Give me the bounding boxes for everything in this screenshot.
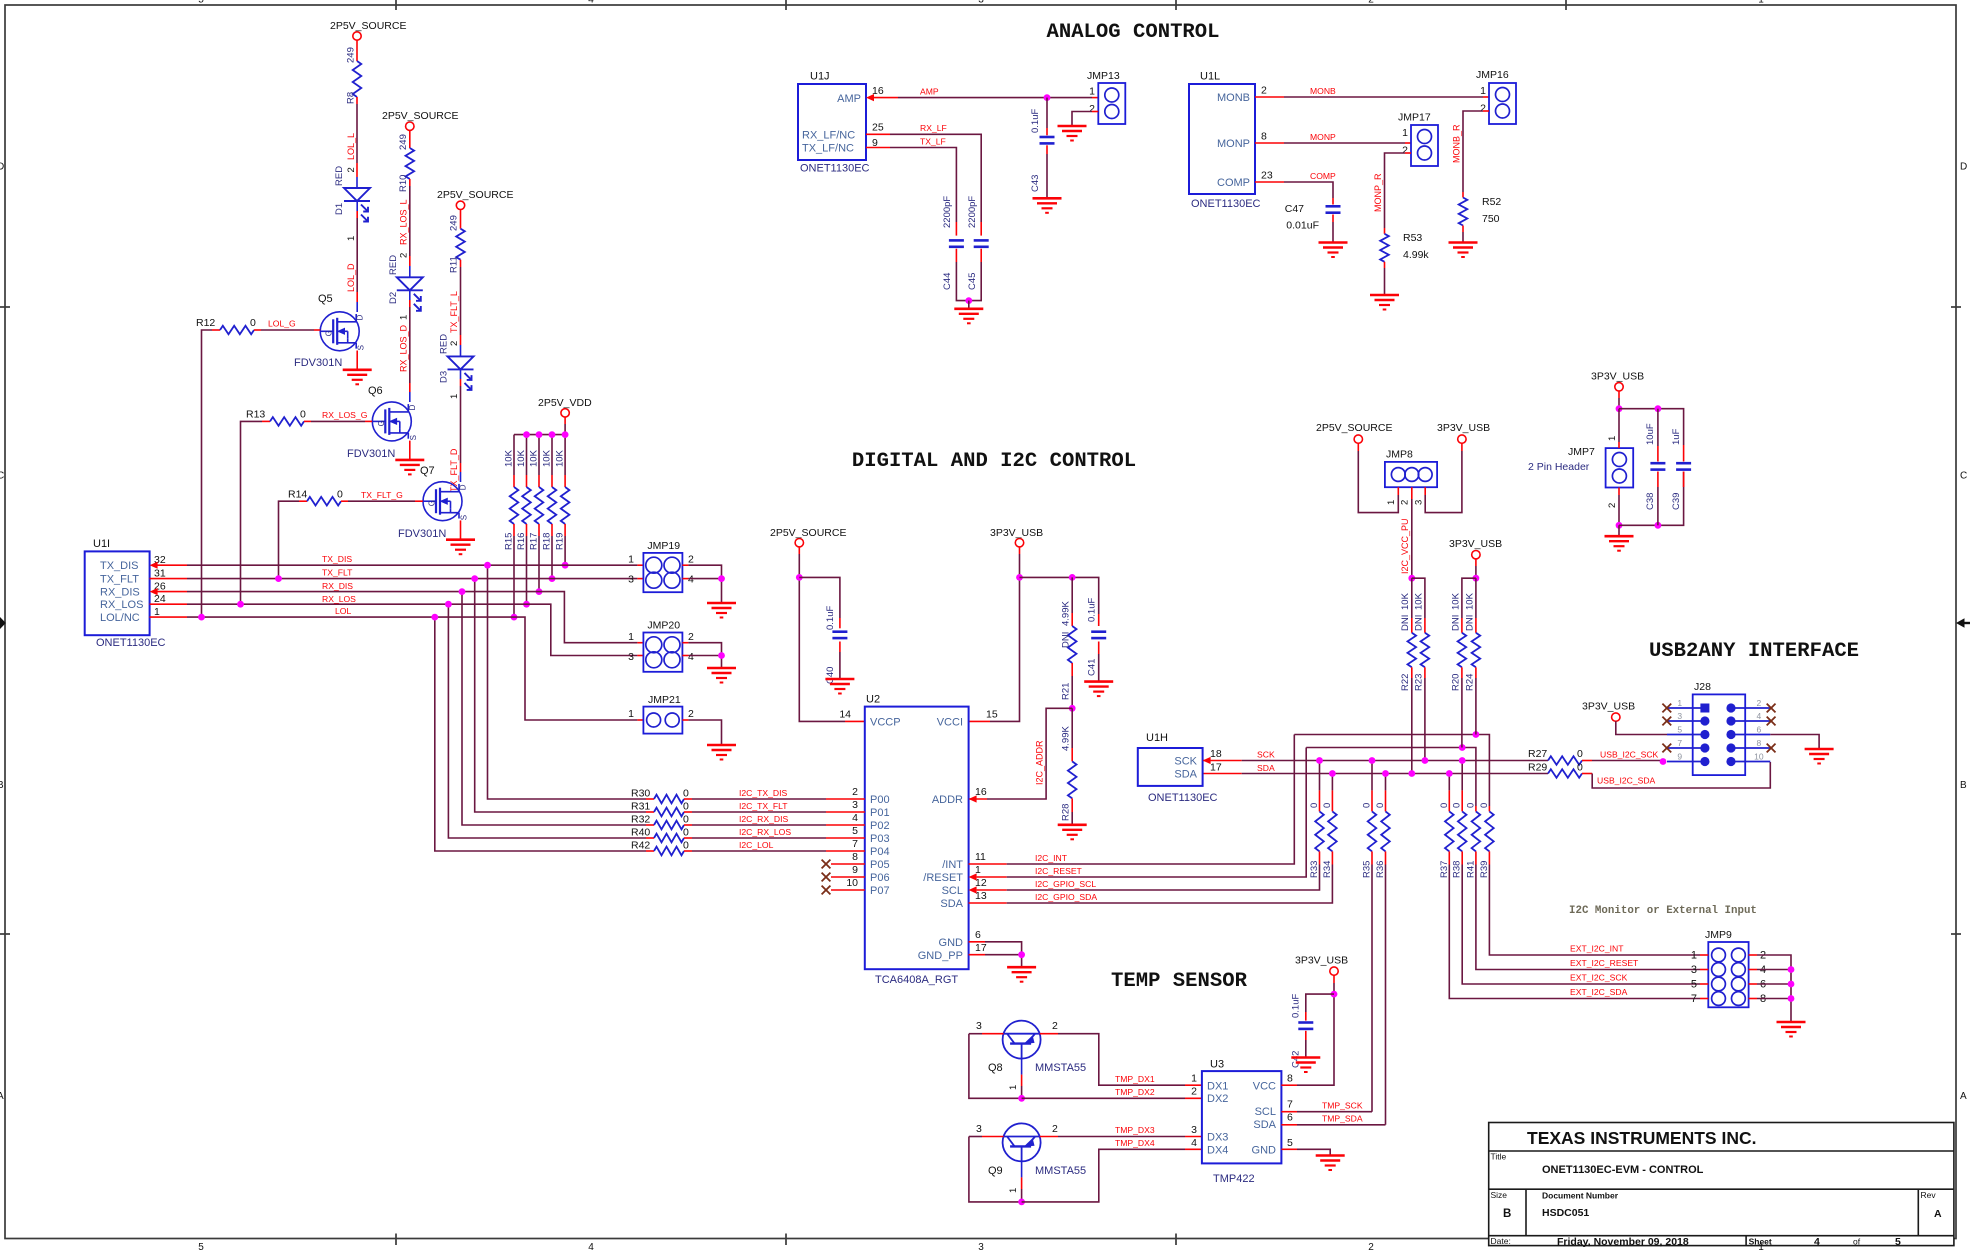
- junction C38 bottom: [1655, 522, 1662, 529]
- junction R21 top: [1069, 574, 1076, 581]
- resistor R16 10K: [516, 435, 531, 605]
- junction R37 top: [1446, 770, 1453, 777]
- label FDV301N (Q6): [347, 448, 395, 460]
- svg-text:D: D: [356, 314, 365, 320]
- IC U1I ONET1130EC (status pins): [85, 551, 150, 635]
- svg-text:DX4: DX4: [1207, 1145, 1228, 1157]
- svg-text:4.99K: 4.99K: [1061, 726, 1072, 751]
- svg-text:S: S: [409, 435, 418, 440]
- wire R11 to D3 anode (net TX_FLT_L): [460, 260, 462, 357]
- svg-text:JMP8: JMP8: [1386, 449, 1413, 461]
- svg-text:4: 4: [688, 651, 694, 663]
- wire R10 to D2 anode (net RX_LOS_L): [409, 179, 411, 277]
- svg-text:2P5V_SOURCE: 2P5V_SOURCE: [330, 20, 406, 32]
- svg-text:10K: 10K: [542, 449, 553, 467]
- svg-text:1: 1: [1677, 698, 1682, 708]
- svg-text:I2C_VCC_PU: I2C_VCC_PU: [1400, 518, 1410, 574]
- wire Q8 pin2 to DX1: [1040, 1034, 1202, 1086]
- svg-text:D: D: [408, 404, 417, 410]
- svg-text:C47: C47: [1285, 203, 1304, 215]
- U1I pin names: [100, 560, 143, 624]
- svg-text:VCCI: VCCI: [937, 717, 963, 729]
- ground C43: [1033, 198, 1062, 213]
- svg-text:1: 1: [1758, 0, 1764, 6]
- svg-text:R34: R34: [1322, 861, 1333, 878]
- wire 2P5V_SOURCE to VCCP: [799, 547, 865, 721]
- svg-text:C: C: [1960, 471, 1967, 482]
- svg-text:AMP: AMP: [837, 93, 861, 105]
- svg-text:ONET1130EC: ONET1130EC: [96, 637, 166, 649]
- svg-text:TMP_SCK: TMP_SCK: [1322, 1101, 1363, 1111]
- svg-text:C40: C40: [825, 667, 836, 684]
- svg-text:LOL_G: LOL_G: [268, 319, 296, 329]
- wire Q5 source to ground: [356, 351, 358, 370]
- junction JMP7 top bus: [1616, 405, 1623, 412]
- power terminal 3P3V_USB (J28): [1582, 701, 1635, 722]
- svg-text:5: 5: [1677, 725, 1682, 735]
- svg-text:D: D: [0, 162, 4, 173]
- svg-text:8: 8: [1287, 1073, 1293, 1085]
- Q9 pin numbers: [976, 1123, 1058, 1193]
- net label USB_I2C_SDA: [1597, 776, 1656, 786]
- svg-text:R23: R23: [1414, 674, 1425, 691]
- net label MONP_R: [1373, 173, 1383, 212]
- junction Q9 emitter/base: [1018, 1199, 1025, 1206]
- net label TMP_SCK: [1322, 1101, 1363, 1111]
- svg-text:0.1uF: 0.1uF: [1291, 994, 1302, 1018]
- junction VCCI / R21 branch: [1016, 574, 1023, 581]
- svg-text:COMP: COMP: [1217, 177, 1250, 189]
- svg-text:RX_DIS: RX_DIS: [100, 587, 140, 599]
- svg-text:3: 3: [852, 799, 858, 811]
- wire branch to R21 and C41: [1020, 577, 1099, 614]
- wire JMP9 pin6 stub: [1757, 983, 1791, 985]
- wire I2C_INT row: [969, 735, 1295, 865]
- svg-text:C: C: [0, 471, 4, 482]
- svg-text:TX_FLT_G: TX_FLT_G: [361, 490, 403, 500]
- svg-text:MONP: MONP: [1217, 138, 1250, 150]
- svg-text:10K: 10K: [529, 449, 540, 467]
- svg-text:USB_I2C_SCK: USB_I2C_SCK: [1600, 750, 1659, 760]
- svg-text:G: G: [377, 420, 386, 426]
- svg-text:1: 1: [1402, 127, 1408, 139]
- svg-text:VCCP: VCCP: [870, 717, 901, 729]
- svg-text:4: 4: [1757, 711, 1762, 721]
- svg-text:1: 1: [1480, 85, 1486, 97]
- ground JMP9: [1777, 1022, 1806, 1037]
- U1I pin arrows: [150, 562, 158, 596]
- wire 3P3V_USB to U3 VCC: [1281, 975, 1334, 1085]
- wire JMP9 even pins to ground: [1757, 955, 1791, 1022]
- svg-text:2: 2: [1052, 1123, 1058, 1135]
- wire row TX_DIS: [157, 564, 643, 566]
- sheet alignment arrow right: [1956, 618, 1970, 628]
- svg-text:R29: R29: [1528, 762, 1547, 774]
- svg-text:EXT_I2C_SCK: EXT_I2C_SCK: [1570, 973, 1628, 983]
- svg-text:SCK: SCK: [1257, 750, 1275, 760]
- svg-text:Q5: Q5: [318, 293, 333, 305]
- label ONET1130EC (U1I): [96, 637, 166, 649]
- junction R17 to row: [536, 588, 543, 595]
- svg-text:R35: R35: [1362, 861, 1373, 878]
- junction column TX_FLT: [471, 575, 478, 582]
- wire U2 GND/GND_PP to ground: [969, 942, 1022, 967]
- junction R14 column on TX_FLT row: [275, 575, 282, 582]
- wire I2C_GPIO_SCL row: [977, 866, 1320, 890]
- svg-text:MMSTA55: MMSTA55: [1035, 1165, 1086, 1177]
- svg-text:R33: R33: [1309, 861, 1320, 878]
- net label MONB_R: [1452, 124, 1462, 163]
- junction R38 top: [1459, 757, 1466, 764]
- svg-text:LOL_D: LOL_D: [346, 263, 356, 292]
- svg-text:RED: RED: [334, 166, 345, 186]
- JMP19 pin numbers: [628, 554, 694, 586]
- title block Title field: [1491, 1152, 1704, 1177]
- wire R35 to TMP_SCK: [1371, 865, 1373, 1112]
- svg-text:Q7: Q7: [420, 465, 435, 477]
- svg-text:0: 0: [1577, 748, 1583, 760]
- svg-text:R39: R39: [1479, 861, 1490, 878]
- junction R22/R23 top: [1408, 575, 1415, 582]
- svg-text:TCA6408A_RGT: TCA6408A_RGT: [875, 974, 958, 986]
- svg-text:2: 2: [852, 786, 858, 798]
- svg-text:R32: R32: [631, 814, 650, 826]
- svg-text:R37: R37: [1439, 861, 1450, 878]
- svg-text:C45: C45: [967, 273, 978, 290]
- junction R16 to row: [523, 601, 530, 608]
- svg-text:C43: C43: [1030, 175, 1041, 192]
- svg-text:2: 2: [1368, 1242, 1374, 1251]
- wire COMP to C47: [1255, 182, 1333, 198]
- capacitor C41 0.1uF: [1087, 598, 1107, 676]
- svg-text:2P5V_SOURCE: 2P5V_SOURCE: [437, 189, 513, 201]
- svg-text:4: 4: [688, 574, 694, 586]
- label U3: [1210, 1059, 1224, 1071]
- svg-text:I2C_TX_DIS: I2C_TX_DIS: [739, 788, 788, 798]
- no-connect X J28 pin3: [1662, 717, 1671, 726]
- wire SCK row: [1203, 760, 1548, 762]
- jumper JMP9: [1705, 929, 1749, 1007]
- LED D2 (RED): [397, 277, 423, 311]
- svg-text:1: 1: [1386, 500, 1397, 505]
- wire D3 cathode to Q7 drain (net TX_FLT_D): [460, 369, 462, 482]
- svg-text:FDV301N: FDV301N: [398, 528, 446, 540]
- svg-text:TMP_DX1: TMP_DX1: [1115, 1074, 1155, 1084]
- no-connect X P06: [822, 873, 831, 882]
- wire C40 to ground: [839, 642, 841, 680]
- JMP16 pin numbers: [1480, 85, 1486, 115]
- svg-text:2200pF: 2200pF: [967, 196, 978, 228]
- wire column TX_DIS down to I2C resistor: [488, 565, 647, 799]
- svg-text:0: 0: [1375, 803, 1386, 808]
- wire top bus to C38/C39: [1619, 409, 1684, 445]
- svg-text:6: 6: [1287, 1111, 1293, 1123]
- wire column TX_FLT down to I2C resistor: [475, 579, 646, 812]
- svg-text:1: 1: [1607, 436, 1618, 441]
- svg-text:D3: D3: [439, 371, 450, 383]
- svg-text:11: 11: [975, 851, 986, 863]
- U1H pin numbers: [1210, 748, 1222, 774]
- svg-text:7: 7: [1287, 1099, 1293, 1111]
- resistor R24 DNI 10K: [1465, 578, 1481, 734]
- svg-text:2P5V_SOURCE: 2P5V_SOURCE: [770, 527, 846, 539]
- svg-text:14: 14: [839, 709, 851, 721]
- svg-text:C38: C38: [1645, 493, 1656, 510]
- svg-text:2: 2: [688, 708, 694, 720]
- label D3 RED: [439, 334, 450, 383]
- junction JMP19 pin4 ground wire: [718, 575, 725, 582]
- net label TMP_DX2: [1115, 1087, 1155, 1097]
- wire JMP8 pin2 to R22/R23 (net I2C_VCC_PU): [1411, 487, 1413, 578]
- label ONET1130EC (U1H): [1148, 792, 1218, 804]
- svg-text:0: 0: [1362, 803, 1373, 808]
- net label USB_I2C_SCK: [1600, 750, 1659, 760]
- svg-text:TX_DIS: TX_DIS: [100, 560, 139, 572]
- svg-text:I2C_ADDR: I2C_ADDR: [1035, 740, 1045, 785]
- svg-text:0: 0: [683, 827, 689, 839]
- junction GND_PP: [1018, 951, 1025, 958]
- jumper JMP17: [1398, 112, 1438, 167]
- wire J28 pin6 to ground: [1770, 735, 1819, 750]
- svg-text:2: 2: [688, 631, 694, 643]
- power terminal 3P3V_USB (R20/R24): [1449, 538, 1502, 559]
- junction VCCP / C40 branch: [796, 574, 803, 581]
- wire C41 branch: [1098, 614, 1100, 626]
- svg-text:R20: R20: [1451, 674, 1462, 691]
- JMP20 pin numbers: [628, 631, 694, 663]
- capacitor C44 2200pF: [942, 196, 969, 301]
- jumper JMP20: [643, 620, 682, 672]
- svg-text:R21: R21: [1061, 683, 1072, 700]
- svg-text:0: 0: [1322, 803, 1333, 808]
- svg-text:0: 0: [683, 840, 689, 852]
- svg-text:JMP13: JMP13: [1087, 70, 1120, 82]
- svg-text:P05: P05: [870, 859, 890, 871]
- svg-text:0: 0: [1309, 803, 1320, 808]
- svg-text:10uF: 10uF: [1645, 423, 1656, 445]
- resistor R13 0: [241, 409, 373, 605]
- wire JMP16 pin2 to R52 (net MONB_R): [1463, 111, 1489, 198]
- svg-text:TMP_DX3: TMP_DX3: [1115, 1125, 1155, 1135]
- U2 pin arrows: [969, 795, 977, 893]
- svg-text:R52: R52: [1482, 196, 1501, 208]
- svg-text:5: 5: [198, 0, 204, 6]
- wire Q8 pin3 loop: [969, 1034, 1022, 1099]
- svg-text:R16: R16: [516, 533, 527, 550]
- wire 3P3V_USB to JMP7 bus: [1618, 391, 1620, 409]
- svg-text:R42: R42: [631, 840, 650, 852]
- svg-text:2: 2: [346, 167, 357, 172]
- svg-text:JMP16: JMP16: [1476, 69, 1509, 81]
- svg-text:2: 2: [1368, 0, 1374, 6]
- junction JMP9 pin4: [1788, 966, 1795, 973]
- svg-text:2: 2: [688, 554, 694, 566]
- svg-text:TX_DIS: TX_DIS: [322, 554, 352, 564]
- svg-text:5: 5: [1691, 979, 1697, 991]
- wire JMP9 pin4 stub: [1757, 969, 1791, 971]
- U1I pin numbers 32 31 26 24 1: [154, 554, 166, 618]
- svg-text:TMP_DX2: TMP_DX2: [1115, 1087, 1155, 1097]
- svg-text:R30: R30: [631, 788, 650, 800]
- junction R13 column on RX_LOS row: [237, 601, 244, 608]
- svg-text:Q6: Q6: [368, 385, 383, 397]
- svg-text:LOL_L: LOL_L: [346, 133, 356, 160]
- wire column RX_DIS down to I2C resistor: [462, 592, 646, 825]
- pin number 1 of D2: [399, 315, 410, 320]
- svg-text:S: S: [460, 515, 469, 520]
- wire 2P5V_VDD to bus: [564, 417, 566, 434]
- label Q8: [988, 1062, 1003, 1074]
- svg-text:MONP_R: MONP_R: [1373, 173, 1383, 212]
- svg-text:ONET1130EC: ONET1130EC: [1148, 792, 1218, 804]
- svg-text:I2C_GPIO_SDA: I2C_GPIO_SDA: [1035, 892, 1097, 902]
- net label MONP: [1310, 132, 1336, 142]
- svg-text:Date:: Date:: [1491, 1236, 1511, 1246]
- svg-text:Size: Size: [1491, 1190, 1508, 1200]
- svg-text:TX_LF/NC: TX_LF/NC: [802, 143, 854, 155]
- svg-text:5: 5: [1287, 1137, 1293, 1149]
- svg-text:USB2ANY INTERFACE: USB2ANY INTERFACE: [1649, 640, 1859, 663]
- net label RX_LOS_L: [399, 199, 410, 258]
- label D2 RED: [388, 255, 399, 304]
- junction R22 bottom on SDA row: [1408, 770, 1415, 777]
- power terminal 2P5V_SOURCE (col1): [330, 20, 406, 40]
- svg-text:0.01uF: 0.01uF: [1286, 220, 1319, 232]
- svg-text:B: B: [0, 780, 4, 791]
- ground C40: [825, 679, 854, 694]
- wire column RX_LOS down to I2C resistor: [448, 604, 646, 838]
- wire bracket to R23: [1412, 578, 1425, 618]
- svg-text:3: 3: [1414, 500, 1425, 505]
- svg-text:Document Number: Document Number: [1542, 1191, 1619, 1201]
- svg-text:EXT_I2C_INT: EXT_I2C_INT: [1570, 944, 1624, 954]
- JMP21 pin numbers: [628, 708, 694, 720]
- svg-text:5: 5: [852, 825, 858, 837]
- svg-text:1: 1: [628, 631, 634, 643]
- transistor Q7 FDV301N: [423, 482, 462, 521]
- IC U3 TMP422: [1202, 1071, 1282, 1163]
- svg-text:4: 4: [852, 812, 858, 824]
- resistor R33 0: [1309, 761, 1324, 879]
- svg-text:0: 0: [683, 814, 689, 826]
- svg-text:RED: RED: [388, 255, 399, 275]
- svg-text:DNI: DNI: [1061, 632, 1072, 648]
- sheet alignment arrow left: [0, 617, 6, 629]
- svg-text:D: D: [1960, 162, 1967, 173]
- svg-text:1uF: 1uF: [1671, 428, 1682, 445]
- junction R35 top: [1369, 757, 1376, 764]
- svg-text:0: 0: [1452, 803, 1463, 808]
- resistor R40 0: [631, 827, 865, 843]
- U1J pin names: [802, 93, 861, 155]
- resistor R41 0: [1465, 803, 1480, 878]
- resistor R28 4.99K: [1061, 708, 1077, 825]
- U2 pin numbers: [839, 709, 998, 955]
- svg-text:C41: C41: [1087, 659, 1098, 676]
- svg-text:TX_LF: TX_LF: [920, 137, 946, 147]
- ground JMP7: [1605, 536, 1634, 551]
- wire JMP19 pin2/pin4 to ground: [682, 565, 721, 603]
- svg-text:DX3: DX3: [1207, 1132, 1228, 1144]
- svg-text:3: 3: [1677, 711, 1682, 721]
- svg-text:2: 2: [1261, 85, 1267, 97]
- label U1J: [810, 71, 830, 83]
- JMP17 pin numbers: [1402, 127, 1408, 157]
- svg-text:R28: R28: [1061, 804, 1072, 821]
- zone numbers top: [198, 0, 1764, 6]
- junction R20/R24 top: [1473, 575, 1480, 582]
- net label TX_LF: [920, 137, 946, 147]
- label Q9: [988, 1165, 1003, 1177]
- svg-text:0.1uF: 0.1uF: [1087, 598, 1098, 622]
- junction R20 on I2C_RESET row: [1459, 744, 1466, 751]
- label Q5: [318, 293, 333, 305]
- svg-text:ANALOG CONTROL: ANALOG CONTROL: [1046, 21, 1219, 44]
- label TCA6408A_RGT: [875, 974, 958, 986]
- resistor R12 0: [196, 317, 320, 617]
- wire ADDR to R21/R28 junction: [969, 708, 1073, 799]
- svg-text:17: 17: [975, 942, 987, 954]
- svg-text:1: 1: [1008, 1085, 1019, 1090]
- title block Size / Document Number / Rev: [1491, 1190, 1943, 1220]
- wire U3 SCL to R35 (net TMP_SCK): [1281, 1111, 1372, 1113]
- svg-text:TX_FLT: TX_FLT: [322, 568, 353, 578]
- junction R21 / R28 / ADDR: [1069, 705, 1076, 712]
- wire column LOL down to I2C resistor: [435, 617, 646, 851]
- net label LOL_L: [346, 133, 357, 173]
- svg-text:3P3V_USB: 3P3V_USB: [1449, 538, 1502, 550]
- svg-text:TMP_SDA: TMP_SDA: [1322, 1114, 1363, 1124]
- svg-text:2: 2: [1089, 103, 1095, 115]
- wire Q9 pin2 to DX3: [1040, 1136, 1202, 1138]
- svg-text:I2C_LOL: I2C_LOL: [739, 840, 774, 850]
- svg-text:S: S: [357, 345, 366, 350]
- svg-text:U1J: U1J: [810, 71, 830, 83]
- resistor R34 0: [1322, 774, 1337, 879]
- bus wire 2P5V_VDD pull-ups: [514, 434, 565, 436]
- svg-text:R19: R19: [555, 533, 566, 550]
- power terminal 2P5V_SOURCE (col2): [382, 110, 458, 130]
- svg-text:A: A: [1934, 1208, 1942, 1220]
- svg-text:GND: GND: [1252, 1145, 1277, 1157]
- ground C44/C45: [954, 309, 983, 324]
- wire DX4 row: [1022, 1149, 1202, 1202]
- svg-text:R40: R40: [631, 827, 650, 839]
- junction 2P5V_VDD bus / R18: [549, 431, 556, 438]
- svg-text:Q8: Q8: [988, 1062, 1003, 1074]
- title block text TEXAS INSTRUMENTS INC.: [1527, 1128, 1756, 1148]
- jumper JMP7 2 Pin Header: [1528, 446, 1633, 488]
- U1J pin arrow AMP: [866, 94, 874, 101]
- wire row I2C_INT (row A) to R39: [1294, 735, 1489, 807]
- svg-text:4: 4: [1191, 1137, 1197, 1149]
- svg-text:DNI: DNI: [1400, 615, 1411, 631]
- svg-text:0.1uF: 0.1uF: [1030, 109, 1041, 133]
- label FDV301N: [294, 357, 342, 369]
- svg-text:A: A: [0, 1091, 4, 1102]
- svg-text:8: 8: [1261, 131, 1267, 143]
- JMP9 pin stubs: [1700, 955, 1757, 999]
- svg-text:10K: 10K: [1451, 592, 1462, 610]
- IC U2 TCA6408A_RGT: [865, 707, 969, 970]
- net label EXT_I2C_SCK: [1570, 973, 1628, 983]
- resistor R27 0: [1528, 748, 1660, 765]
- net label RX_LOS_D: [399, 324, 409, 372]
- JMP9 pin numbers: [1691, 950, 1766, 1006]
- svg-text:I2C_TX_FLT: I2C_TX_FLT: [739, 801, 788, 811]
- resistor R14 0: [279, 489, 423, 579]
- svg-text:1: 1: [1089, 86, 1095, 98]
